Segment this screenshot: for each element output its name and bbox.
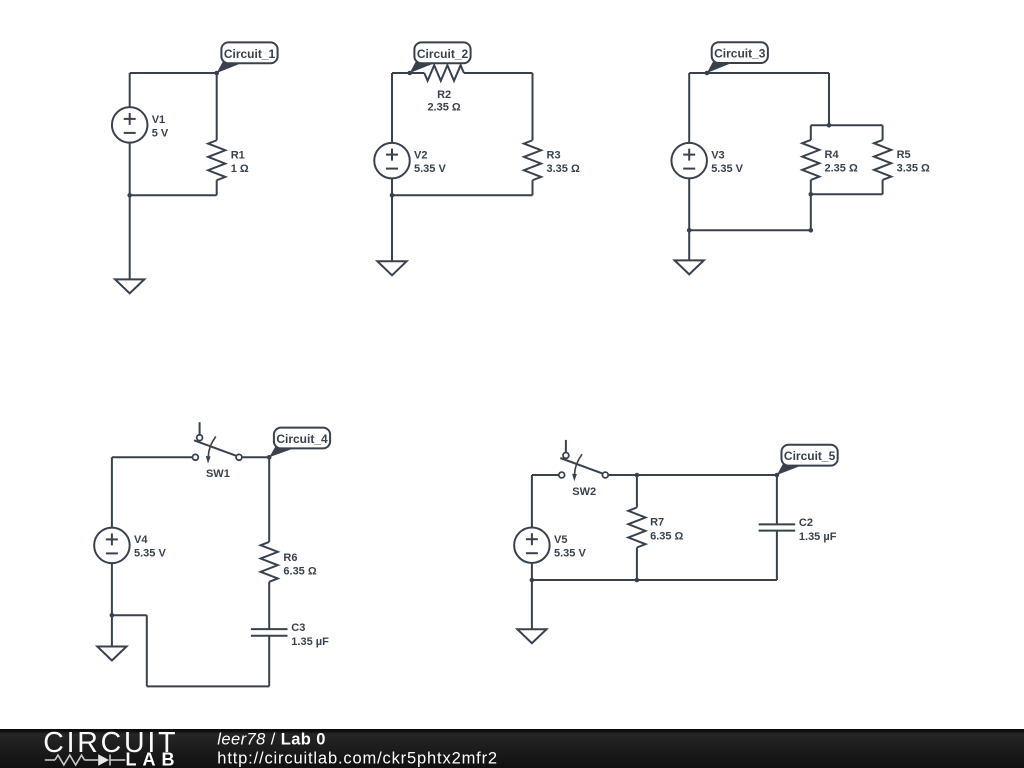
svg-text:R5: R5 (897, 149, 911, 161)
svg-text:5.35 V: 5.35 V (414, 163, 446, 175)
svg-text:V5: V5 (554, 534, 567, 546)
svg-text:R6: R6 (283, 552, 297, 564)
svg-text:R1: R1 (231, 150, 245, 162)
svg-text:1.35 µF: 1.35 µF (799, 531, 837, 543)
svg-text:2.35 Ω: 2.35 Ω (825, 163, 858, 175)
svg-text:SW1: SW1 (206, 468, 230, 480)
svg-text:R3: R3 (547, 150, 561, 162)
svg-text:5 V: 5 V (152, 127, 169, 139)
svg-text:V2: V2 (414, 150, 427, 162)
svg-text:Circuit_4: Circuit_4 (276, 432, 328, 446)
svg-text:R7: R7 (650, 516, 664, 528)
svg-text:5.35 V: 5.35 V (134, 548, 166, 560)
svg-text:LAB: LAB (126, 750, 181, 768)
svg-text:5.35 V: 5.35 V (554, 548, 586, 560)
svg-text:6.35 Ω: 6.35 Ω (283, 565, 316, 577)
svg-text:C3: C3 (291, 622, 305, 634)
svg-text:V4: V4 (134, 534, 148, 546)
svg-text:V1: V1 (152, 114, 165, 126)
svg-text:3.35 Ω: 3.35 Ω (547, 163, 580, 175)
svg-text:6.35 Ω: 6.35 Ω (650, 531, 683, 543)
svg-text:R2: R2 (437, 89, 451, 101)
svg-text:Circuit_5: Circuit_5 (784, 449, 836, 463)
svg-text:Circuit_1: Circuit_1 (224, 47, 276, 61)
svg-text:V3: V3 (711, 150, 724, 162)
svg-text:http://circuitlab.com/ckr5phtx: http://circuitlab.com/ckr5phtx2mfr2 (217, 750, 498, 768)
svg-text:5.35 V: 5.35 V (711, 163, 743, 175)
svg-text:R4: R4 (825, 149, 840, 161)
svg-text:C2: C2 (799, 517, 813, 529)
svg-text:3.35 Ω: 3.35 Ω (897, 163, 930, 175)
svg-text:Circuit_3: Circuit_3 (714, 47, 766, 61)
svg-text:Circuit_2: Circuit_2 (417, 47, 469, 61)
svg-text:1 Ω: 1 Ω (231, 163, 249, 175)
svg-text:leer78 / Lab 0: leer78 / Lab 0 (217, 731, 326, 749)
svg-text:2.35 Ω: 2.35 Ω (427, 102, 460, 114)
svg-text:1.35 µF: 1.35 µF (291, 636, 329, 648)
svg-text:SW2: SW2 (572, 486, 596, 498)
